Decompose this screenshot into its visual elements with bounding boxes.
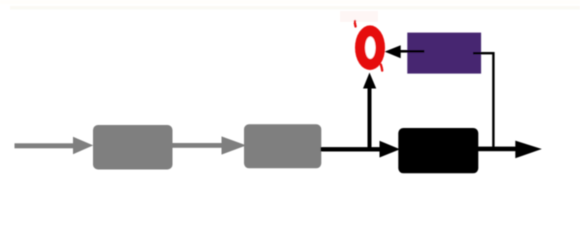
wire arrow controller to zero (black): [398, 50, 424, 53]
wire input arrow (gray): [15, 137, 94, 155]
arrowhead into plant: [380, 141, 401, 158]
controller block (purple): [407, 33, 481, 74]
wire up-arrow to summing node (black): [368, 88, 372, 151]
decorative faint top band: [0, 0, 580, 4]
red zero annotation (ellipse): [355, 25, 385, 70]
block 1 (gray): [93, 125, 173, 170]
plant block (black): [398, 128, 478, 173]
block 2 (gray): [244, 124, 321, 168]
wire block2 to plant (black): [321, 147, 382, 151]
wire feedback from output to controller (black): [473, 52, 494, 54]
red zero pen tail bottom-right: [381, 65, 382, 71]
wire arrow block1 to block2 (gray): [172, 136, 246, 154]
wire output (black): [476, 147, 518, 152]
red zero pen tail top-left: [354, 21, 357, 27]
arrowhead output: [515, 141, 542, 159]
